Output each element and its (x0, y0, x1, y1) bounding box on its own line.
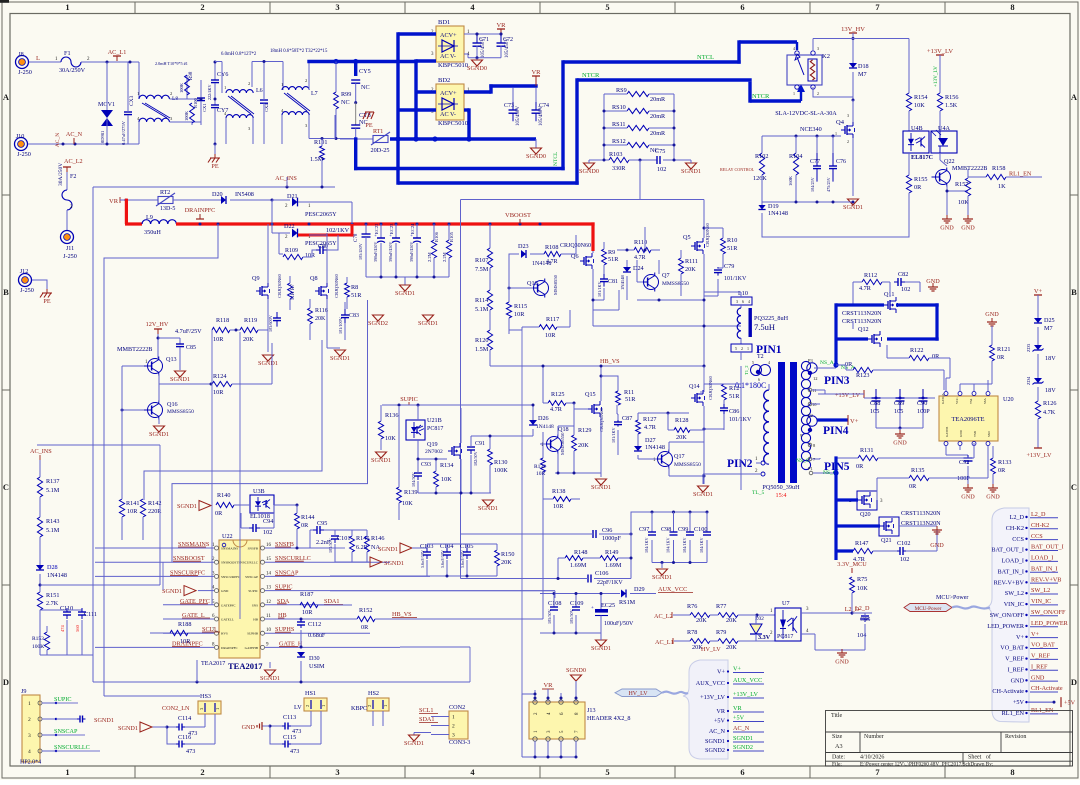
wire R112 gate feed (852, 321, 854, 329)
wires RS bank right (649, 93, 674, 95)
svg-text:P3: P3 (808, 358, 814, 363)
connector J13 HEADER 4X2_8 (529, 702, 585, 739)
svg-text:2: 2 (305, 705, 310, 707)
svg-text:GND: GND (1031, 674, 1045, 681)
wires RS bank left (604, 93, 627, 95)
svg-text:Q11: Q11 (884, 291, 894, 298)
svg-text:R138: R138 (552, 488, 565, 495)
svg-text:101/1KV: 101/1KV (724, 276, 747, 282)
svg-text:20K: 20K (726, 617, 737, 624)
resistor R9 51R (602, 249, 607, 265)
svg-text:PE: PE (211, 163, 218, 170)
resistor R111 20K (679, 258, 684, 274)
svg-text:2: 2 (305, 78, 307, 83)
svg-text:HB: HB (253, 618, 258, 622)
wire RS sense down (639, 160, 641, 199)
svg-text:F2: F2 (70, 174, 76, 180)
wire SNSFB long (330, 547, 345, 549)
svg-text:RT1: RT1 (373, 129, 383, 135)
svg-text:CON2_LN: CON2_LN (162, 705, 190, 712)
svg-text:VIN_IC: VIN_IC (1031, 598, 1051, 605)
fuse F1 30A/250V (61, 57, 81, 67)
svg-text:105/450V: 105/450V (516, 106, 521, 126)
ground GND R157 (967, 215, 969, 219)
svg-text:SGND1: SGND1 (478, 505, 498, 512)
thermistor RT2 13D-5 (158, 197, 173, 204)
svg-text:PE: PE (365, 122, 372, 129)
resistor R145 6.2R (350, 536, 355, 552)
svg-text:LV: LV (294, 704, 302, 711)
resistor R118 10R (212, 327, 230, 332)
svg-text:C100: C100 (694, 526, 707, 533)
svg-text:7.5M: 7.5M (475, 266, 489, 273)
svg-text:GND: GND (221, 589, 229, 593)
svg-text:R121: R121 (997, 346, 1010, 353)
svg-text:2: 2 (847, 139, 849, 144)
harness HV_LV region (683, 660, 728, 759)
svg-text:VR: VR (496, 22, 506, 29)
wire Q4 gate row (762, 135, 841, 137)
svg-text:VR: VR (109, 198, 119, 205)
svg-text:104/1KV: 104/1KV (666, 537, 671, 553)
svg-text:6.2R: 6.2R (356, 544, 369, 551)
signal ground SGND1 R145 arrow (370, 557, 382, 567)
svg-text:J11: J11 (66, 245, 74, 252)
svg-text:RS1M: RS1M (619, 599, 636, 606)
svg-text:V+: V+ (1016, 634, 1024, 641)
svg-text:2: 2 (367, 705, 372, 707)
svg-text:103/50V: 103/50V (328, 538, 333, 553)
svg-text:I_REF: I_REF (1007, 666, 1024, 673)
svg-text:AUX_VCC: AUX_VCC (658, 586, 687, 593)
svg-text:102: 102 (901, 286, 910, 293)
svg-text:R117: R117 (546, 316, 559, 323)
svg-text:SDA1: SDA1 (324, 598, 339, 605)
capacitor C97 104/1KV (651, 512, 653, 532)
svg-text:SGND1: SGND1 (177, 503, 197, 510)
svg-text:R137: R137 (46, 478, 59, 485)
svg-text:1: 1 (224, 85, 226, 90)
svg-text:100K: 100K (32, 644, 44, 650)
svg-text:12: 12 (813, 376, 818, 381)
svg-text:CCS: CCS (1031, 533, 1043, 540)
svg-text:+13V_LV: +13V_LV (835, 392, 860, 399)
svg-text:+13V_LV: +13V_LV (733, 691, 758, 698)
svg-text:GND: GND (985, 311, 999, 318)
svg-text:2: 2 (741, 346, 743, 351)
bus NTCL run (354, 137, 357, 170)
svg-text:J8: J8 (18, 51, 24, 58)
svg-text:C112: C112 (308, 621, 321, 628)
resistor R122 0R (909, 355, 929, 360)
svg-text:File:: File: (832, 761, 842, 767)
svg-text:MMSS8550: MMSS8550 (674, 462, 701, 468)
resistor R126 4.7K (1035, 401, 1040, 419)
diode D21 PESC2065Y (292, 198, 298, 207)
svg-text:MCU>Power: MCU>Power (936, 595, 968, 601)
resistor R144 0R (295, 513, 300, 529)
bus vertical main left (396, 32, 399, 184)
wire J8 to F1 (29, 61, 61, 63)
resistor R158 1K (968, 176, 986, 178)
svg-text:TEA2017: TEA2017 (201, 660, 225, 667)
svg-text:R155: R155 (914, 176, 927, 183)
svg-text:R78: R78 (687, 629, 697, 636)
svg-text:18V: 18V (1045, 387, 1056, 394)
svg-text:C93: C93 (421, 462, 431, 468)
signal ground SGND1 transformer (703, 473, 750, 475)
svg-text:0R: 0R (301, 522, 309, 529)
wire TEA2017 right pin 16 (265, 547, 330, 549)
choke L8 core (142, 103, 167, 118)
svg-text:MMSS8550: MMSS8550 (662, 281, 689, 287)
resistor R127 4.7R (636, 420, 641, 434)
signal ground SGND1 Q15 (600, 473, 602, 477)
svg-text:VO_BAT: VO_BAT (1000, 645, 1024, 652)
svg-text:104/50V: 104/50V (411, 472, 416, 487)
svg-text:CH-K2: CH-K2 (1031, 522, 1049, 529)
svg-text:100K: 100K (184, 110, 189, 121)
wire drive to transformer (700, 391, 704, 393)
svg-text:KBPC: KBPC (351, 705, 367, 712)
svg-text:20K: 20K (315, 316, 326, 322)
power port VR mid (532, 75, 540, 77)
svg-text:SGND1: SGND1 (591, 645, 611, 652)
capacitor C113 473 (282, 725, 285, 727)
svg-text:2: 2 (200, 2, 204, 12)
svg-text:4.7K: 4.7K (1043, 409, 1056, 416)
svg-text:1: 1 (215, 708, 220, 710)
svg-text:2: 2 (248, 81, 250, 86)
resistor R77 20K (718, 613, 738, 618)
svg-text:AC V-: AC V- (440, 111, 456, 118)
svg-text:20mR: 20mR (650, 96, 666, 103)
svg-text:C55: C55 (860, 616, 870, 623)
svg-text:R111: R111 (685, 258, 698, 265)
capacitor C91 102/50V (470, 443, 472, 447)
svg-text:10R: 10R (514, 311, 525, 318)
capacitor C98 104/1KV (673, 512, 675, 532)
svg-text:4: 4 (768, 360, 770, 365)
capacitor CX2 (263, 99, 265, 101)
svg-text:SSD: SSD (987, 430, 991, 437)
svg-text:SLA-12VDC-SL-A-30A: SLA-12VDC-SL-A-30A (775, 110, 837, 117)
svg-text:126K: 126K (753, 175, 767, 182)
svg-text:1N4148: 1N4148 (536, 424, 554, 430)
svg-text:TSB: TSB (973, 431, 977, 437)
connector J12 (19, 274, 32, 287)
power port AC_L1 (113, 55, 121, 57)
svg-text:CX1: CX1 (202, 103, 207, 112)
svg-text:4: 4 (793, 46, 795, 51)
wire Q14 gate row (638, 412, 689, 414)
svg-text:SGND1: SGND1 (170, 376, 190, 383)
svg-text:SNSMAINS: SNSMAINS (221, 547, 238, 551)
svg-text:Q6: Q6 (571, 253, 579, 260)
transformer primary pins (761, 461, 765, 465)
bus vertical RT1 node (354, 62, 357, 77)
svg-text:NCE340: NCE340 (800, 126, 822, 133)
svg-text:15: 15 (266, 557, 272, 562)
ground GND R121 (991, 318, 993, 322)
svg-text:PC817: PC817 (777, 634, 793, 640)
svg-text:R187: R187 (300, 591, 313, 598)
svg-text:J13: J13 (587, 707, 596, 714)
svg-text:C92: C92 (959, 459, 969, 466)
svg-text:SNSCURPFC: SNSCURPFC (221, 575, 241, 579)
svg-text:105/50V: 105/50V (547, 609, 552, 624)
capacitor C82 102 (894, 281, 898, 283)
svg-text:SUPIC: SUPIC (400, 396, 418, 403)
connector J8 (16, 56, 29, 69)
wire P2 to V+ thick (817, 418, 848, 421)
resistor RS9 20mR (627, 91, 649, 96)
svg-text:R151: R151 (46, 592, 59, 599)
svg-text:GATQA: GATQA (941, 393, 945, 404)
resistor RS11 20mR (627, 125, 649, 130)
svg-text:1.5M: 1.5M (475, 346, 489, 353)
svg-text:GATEPFC: GATEPFC (221, 603, 236, 607)
svg-text:RL1_EN: RL1_EN (1009, 171, 1032, 178)
svg-text:SGND1: SGND1 (149, 431, 169, 438)
diode D19 1N4148 (761, 202, 763, 205)
wire TEA2017 right pin 9 (265, 646, 400, 648)
svg-text:L9: L9 (146, 214, 153, 221)
wire J12 to PE (32, 280, 47, 290)
svg-text:GND: GND (926, 278, 940, 285)
resistor R157 10K (965, 178, 970, 196)
wire sense corner B (172, 300, 368, 562)
svg-text:TS4: TS4 (969, 398, 973, 404)
capacitor C89 105 (899, 389, 901, 398)
svg-text:AC_N: AC_N (709, 728, 726, 735)
svg-text:SNSCURLLC: SNSCURLLC (238, 561, 258, 565)
svg-text:D18: D18 (858, 63, 869, 70)
svg-text:K2: K2 (822, 53, 830, 60)
earth PE J12 (42, 292, 52, 294)
svg-text:5.1M: 5.1M (46, 527, 60, 534)
svg-text:1: 1 (793, 91, 795, 96)
svg-text:NTCR: NTCR (752, 93, 770, 100)
signal ground SGND1 R136 (376, 452, 387, 458)
resistor R129 20K (572, 435, 577, 451)
wire TEA2017 pin 1 (95, 547, 214, 549)
svg-text:GND: GND (961, 494, 975, 501)
svg-text:MCU-Power: MCU-Power (915, 606, 942, 612)
wire gate drive rows (575, 235, 577, 254)
svg-text:C90: C90 (917, 400, 927, 407)
svg-text:20mR: 20mR (650, 113, 666, 120)
capacitor C86 101/1KV (723, 404, 725, 408)
svg-text:Q16: Q16 (167, 401, 178, 408)
svg-text:LED_POWER: LED_POWER (987, 623, 1025, 630)
svg-text:U3B: U3B (253, 488, 265, 495)
svg-text:HV_LV: HV_LV (628, 691, 648, 697)
svg-text:11: 11 (266, 614, 271, 619)
svg-text:+5V: +5V (1013, 699, 1025, 706)
capacitor CY7 (214, 99, 216, 105)
svg-text:SNSFB: SNSFB (248, 547, 259, 551)
ground GND C55 (815, 649, 865, 651)
svg-text:CON3-3: CON3-3 (449, 739, 470, 746)
svg-text:MMSS8550: MMSS8550 (167, 409, 194, 415)
bus BD1 input top (398, 32, 436, 35)
svg-text:GND: GND (242, 724, 256, 731)
svg-text:C114: C114 (178, 715, 191, 722)
diode D22 PESC2065Y (292, 229, 298, 238)
capacitor C111 (67, 609, 82, 611)
svg-text:PE: PE (43, 298, 50, 305)
diode D27 1N4148 (634, 446, 642, 451)
wire top rail L6-L7 (252, 61, 283, 63)
svg-text:R134: R134 (440, 462, 453, 469)
svg-text:1: 1 (383, 705, 388, 707)
svg-text:30A/250V: 30A/250V (59, 67, 86, 74)
svg-text:A: A (3, 92, 10, 102)
ground GND C82 (932, 283, 934, 287)
svg-text:R147: R147 (855, 540, 868, 547)
IC U20 TEA2096TE (939, 396, 998, 441)
svg-text:MMS8550: MMS8550 (553, 274, 558, 295)
svg-text:C108: C108 (548, 600, 561, 607)
svg-text:RS9: RS9 (616, 87, 627, 94)
svg-text:ACV+: ACV+ (440, 32, 457, 39)
signal ground SGND1 Q16 (154, 426, 165, 432)
svg-text:R139: R139 (404, 489, 417, 496)
connector J10 (15, 138, 28, 151)
resistor R141 10R (119, 499, 124, 517)
wire left bottom rail (40, 654, 93, 656)
capacitor C75 102 (656, 159, 658, 161)
svg-text:J-250: J-250 (17, 151, 31, 158)
wire resonant cap rail (631, 512, 707, 579)
svg-text:CCS: CCS (1012, 536, 1024, 543)
wire TEA2017 right pin 15 (265, 561, 390, 563)
svg-text:R10: R10 (727, 237, 737, 244)
svg-text:10R: 10R (302, 609, 313, 616)
svg-text:4: 4 (28, 749, 31, 755)
svg-text:2.0mH T10*9*5 #1: 2.0mH T10*9*5 #1 (155, 61, 188, 66)
svg-text:1.69M: 1.69M (570, 562, 587, 569)
svg-text:C83: C83 (349, 313, 359, 319)
svg-text:C76: C76 (836, 159, 846, 165)
svg-text:0R: 0R (997, 354, 1005, 361)
svg-text:R115: R115 (514, 303, 527, 310)
svg-text:Q10: Q10 (527, 280, 538, 287)
wire relay pin2 to Q4 drain (813, 87, 853, 97)
capacitor EC22 390uF (380, 224, 382, 238)
svg-text:1N4148: 1N4148 (645, 444, 665, 451)
svg-text:R99: R99 (341, 91, 351, 98)
power port +13V_LV caps (864, 397, 869, 399)
signal ground SGND1 Q4 (848, 199, 859, 205)
svg-text:HEADER 4X2_8: HEADER 4X2_8 (587, 715, 630, 722)
svg-text:102/1KV: 102/1KV (326, 227, 350, 234)
capacitor C106 22pF/1KV (587, 578, 589, 580)
svg-text:MMBT2222B: MMBT2222B (117, 346, 152, 353)
harness port HV_LV (615, 689, 662, 697)
capacitor C112 0.68uF (300, 618, 303, 621)
wire TEA2096 top pins (945, 378, 947, 391)
svg-text:D20: D20 (212, 191, 223, 198)
svg-text:BAT_OUT_I: BAT_OUT_I (1031, 544, 1064, 551)
svg-text:0R: 0R (998, 467, 1006, 474)
svg-text:+13V_LV: +13V_LV (927, 48, 953, 55)
svg-text:CY7: CY7 (217, 108, 228, 114)
svg-text:5: 5 (735, 346, 737, 351)
wire Q8 drain (309, 234, 327, 236)
svg-text:J-250: J-250 (18, 69, 32, 76)
resistor R115 10R (506, 302, 511, 318)
wire HS3 pins down (204, 714, 206, 727)
svg-text:AC V-: AC V- (440, 53, 456, 60)
svg-text:101/1KV: 101/1KV (597, 281, 602, 297)
wire cap bank bottom (366, 276, 449, 278)
resistor R116 20K (308, 308, 313, 324)
svg-text:4.7R: 4.7R (550, 406, 563, 413)
wire C103 row (427, 543, 497, 545)
svg-text:SGND1: SGND1 (418, 320, 438, 327)
harness MCU-Power region (986, 508, 1029, 722)
svg-text:100K: 100K (494, 467, 508, 474)
svg-text:CRJQ30N60: CRJQ30N60 (708, 376, 713, 400)
ground GND HS1 (270, 725, 282, 727)
wire cap rail top (869, 397, 935, 399)
svg-text:CRST113N20N: CRST113N20N (842, 318, 882, 325)
signal ground SGND1 TEA pin4 (184, 586, 196, 596)
wire AC_INS down (39, 460, 41, 477)
svg-text:VR: VR (733, 705, 742, 712)
signal ground SGND1 EC25 (596, 640, 607, 646)
wire sense corner A (144, 340, 322, 500)
svg-text:475/25V: 475/25V (826, 177, 831, 192)
svg-text:R105: R105 (449, 231, 454, 242)
capacitor C90 100P (922, 389, 924, 398)
resistor R103 330R (589, 159, 609, 161)
svg-text:SSA: SSA (983, 397, 987, 404)
svg-text:102: 102 (900, 556, 909, 563)
resistor R123 0R (853, 367, 873, 372)
svg-text:R11: R11 (624, 389, 634, 396)
svg-text:13V_HV: 13V_HV (841, 26, 865, 33)
resistor R78 20K (674, 640, 690, 642)
svg-text:D30: D30 (309, 655, 320, 662)
transformer primary winding (740, 352, 742, 360)
svg-text:D26: D26 (538, 415, 549, 422)
diode D18 M7 (849, 63, 857, 68)
diode D24 1N4148 (623, 267, 631, 272)
svg-text:7.5uH: 7.5uH (754, 322, 775, 332)
svg-text:+13V_LV: +13V_LV (933, 66, 939, 87)
svg-text:+5V: +5V (733, 715, 745, 722)
svg-text:GND: GND (940, 225, 954, 232)
svg-text:Number: Number (864, 734, 884, 740)
svg-text:350uH: 350uH (144, 229, 161, 236)
harness squiggle HV_LV (662, 692, 688, 694)
svg-text:2: 2 (200, 767, 204, 777)
svg-text:R109: R109 (285, 248, 298, 254)
svg-text:C89: C89 (894, 400, 904, 407)
svg-text:R132: R132 (534, 464, 546, 470)
diode D29 RS1M (621, 590, 626, 598)
bus NTCR run (398, 181, 579, 184)
svg-text:R8: R8 (351, 284, 358, 291)
svg-text:RS10: RS10 (612, 104, 626, 111)
bus Q21 row (836, 524, 880, 527)
resistor R152 0R (357, 616, 375, 621)
bus right vertical Q11-Q12 (935, 303, 938, 340)
svg-text:1N4148: 1N4148 (620, 274, 625, 290)
